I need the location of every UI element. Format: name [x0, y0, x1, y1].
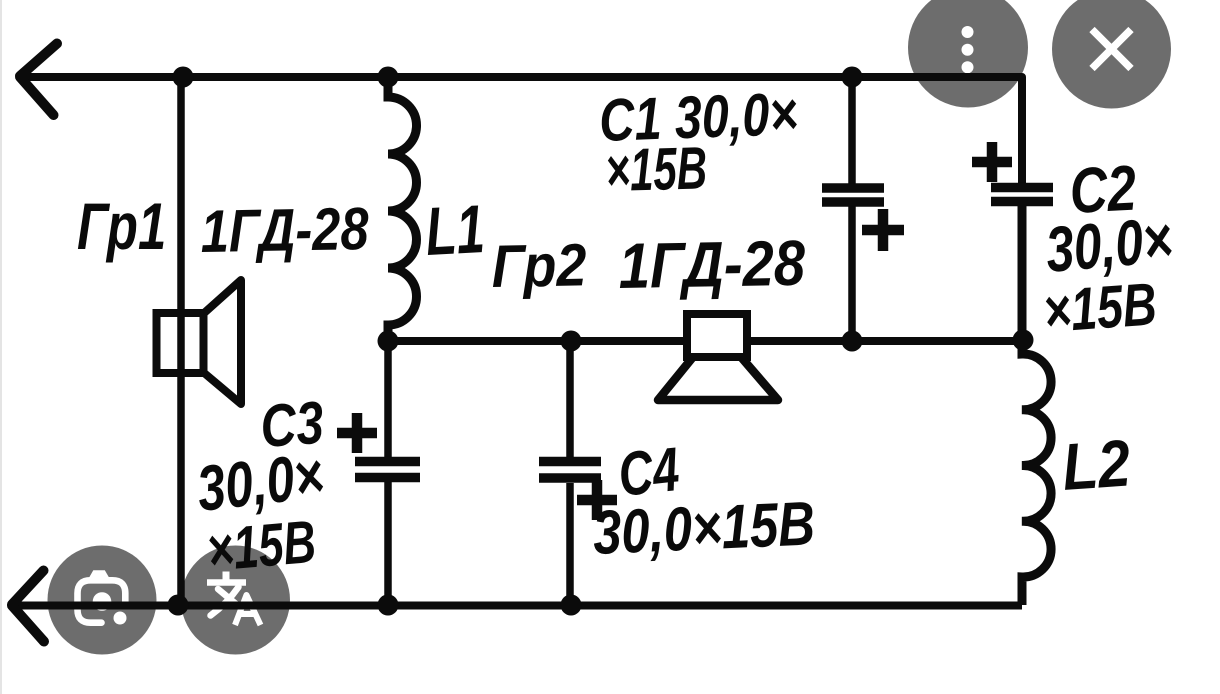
inductor L1	[388, 77, 417, 341]
arrow bottom-left	[12, 571, 44, 642]
node middle C4	[561, 331, 582, 352]
svg-text:1ГД-28: 1ГД-28	[200, 195, 369, 265]
node top L1	[378, 67, 399, 88]
left edge line	[0, 0, 2, 694]
capacitor C1	[822, 77, 904, 341]
capacitor C4	[539, 341, 617, 605]
node middle L1/C3	[378, 331, 399, 352]
node middle C1	[842, 331, 863, 352]
node top C1	[842, 67, 863, 88]
arrow top-left	[20, 44, 57, 116]
camera lens button	[48, 546, 157, 655]
svg-text:×15В: ×15В	[605, 134, 708, 204]
capacitor C2	[972, 142, 1053, 341]
wire middle rail	[388, 337, 1022, 345]
svg-text:Гр2: Гр2	[491, 232, 587, 301]
svg-text:×15В: ×15В	[204, 509, 318, 585]
svg-text:1ГД-28: 1ГД-28	[618, 226, 806, 301]
speaker Gr1	[157, 280, 242, 404]
svg-text:L2: L2	[1060, 427, 1133, 505]
node bottom-left	[168, 595, 189, 616]
node bottom C4	[561, 595, 582, 616]
svg-text:×15В: ×15В	[1041, 271, 1159, 346]
wire left vertical	[177, 77, 185, 605]
svg-text:L1: L1	[424, 191, 487, 270]
node bottom C3	[378, 595, 399, 616]
wire top rail	[19, 77, 1022, 184]
node top-left	[173, 67, 194, 88]
capacitor C3	[337, 341, 420, 605]
svg-text:30,0×15В: 30,0×15В	[592, 490, 817, 569]
wire bottom rail	[11, 602, 1022, 610]
svg-text:Гр1: Гр1	[77, 191, 166, 264]
speaker Gr2	[658, 314, 778, 400]
inductor L2	[1022, 341, 1051, 605]
menu button (three dots)	[908, 0, 1028, 108]
translate button (wen-A)	[181, 546, 290, 655]
close button (X)	[1052, 0, 1171, 109]
node middle L2	[1013, 330, 1034, 351]
